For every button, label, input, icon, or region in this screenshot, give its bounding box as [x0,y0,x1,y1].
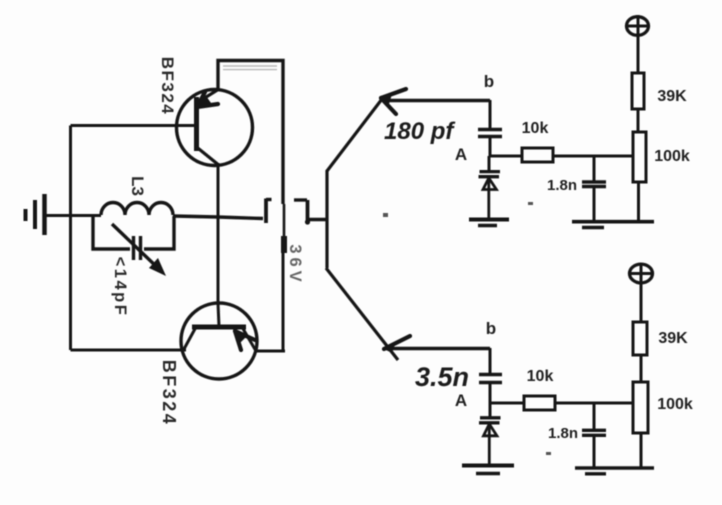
label 180 pf [384,118,455,145]
arrow top feed [381,89,406,114]
connector jack right contact [294,200,326,225]
transistor Q1 BF324 (PNP, top) [177,89,253,166]
resistor 39K (bottom) [633,322,647,355]
resistor 100k (top) [633,132,646,221]
arrow bottom feed [384,336,410,353]
ground (top right circuit, under varicap) [469,220,509,226]
wire Q1 base [71,124,197,127]
wire diagonal to top feed [327,99,382,171]
varicap D2 (bottom) [479,403,501,465]
label 14pF [111,257,129,318]
label BF324 (Q2) [159,360,179,427]
wire diagonal to bottom feed [326,268,398,360]
label 1.8n (top) [547,177,577,194]
label 3.5n [415,362,469,392]
wire Q1 emitter down [217,163,220,303]
node b (top) [484,72,494,91]
node b (bottom) [486,319,496,338]
wire node A to 10k (bottom) [490,402,524,405]
svg-text:39K: 39K [657,88,687,105]
wire node A to 10k [490,155,522,158]
label 36V [286,244,304,285]
label 39K (bottom) [658,330,688,347]
wire b down to cap (bottom) [489,348,492,374]
svg-text:A: A [455,391,467,410]
wire b down to cap [489,100,492,129]
wire left vertical bus [69,126,72,351]
svg-text:b: b [484,72,494,91]
node A (bottom) [455,391,467,410]
svg-text:b: b [486,319,496,338]
ground (top right circuit, under 1.8n) [572,222,654,228]
wire ground to tank [44,214,101,217]
connector jack left contact [218,199,272,224]
svg-text:36V: 36V [286,244,304,285]
svg-text:1.8n: 1.8n [548,425,578,442]
wire antenna stub vertical [325,170,328,268]
inductor L3 [101,202,218,217]
capacitor 1.8n (bottom) [582,403,606,468]
resistor 100k (bottom) [633,382,648,468]
svg-text:10k: 10k [522,120,549,137]
wire 10k to 100k tap [553,155,633,158]
label 39K (top) [657,88,687,105]
resistor 10k (bottom) [524,396,555,410]
ground (left, rotated) [26,194,45,235]
wire bottom left to Q2 collector [71,349,187,352]
ghost scan lines under top rail [223,66,277,70]
label BF324 (Q1) [158,57,177,116]
wire 10k to 100k tap (bottom) [555,402,633,405]
svg-text:1.8n: 1.8n [547,177,577,194]
svg-text:100k: 100k [657,396,693,413]
label 10k (bottom) [527,368,554,385]
svg-text:3.5n: 3.5n [415,362,469,392]
svg-text:39K: 39K [658,330,688,347]
node A (top) [455,145,467,164]
capacitor trimmer <14pF (parallel branch) [93,216,174,276]
wire 39K to 100k (bottom) [640,355,643,382]
resistor 39K (top) [632,73,644,109]
wire 39K to 100k (top) [637,109,640,132]
connector jack plug tip 36V [283,204,286,253]
svg-text:180 pf: 180 pf [384,118,455,145]
artifact dots [383,202,551,455]
capacitor 180pf [478,130,502,157]
transistor Q2 BF324 (PNP, bottom) [181,303,257,379]
wire top feed horizontal to b [383,99,490,102]
label L3 [128,176,147,196]
label 100k (bottom) [657,396,693,413]
svg-text:100k: 100k [654,148,690,165]
label 10k (top) [522,120,549,137]
capacitor 3.5n [479,375,502,404]
ground (bottom right circuit, under varicap) [462,466,514,474]
svg-text:<14pF: <14pF [111,257,129,318]
svg-text:BF324: BF324 [159,360,179,427]
ground (bottom right circuit, under 1.8n) [575,468,654,474]
wire Q1 collector up and top rail [218,61,283,205]
wire Q2 emitter to right bus [256,252,285,351]
svg-text:BF324: BF324 [158,57,177,116]
svg-text:L3: L3 [128,176,147,196]
label 1.8n (bottom) [548,425,578,442]
svg-text:A: A [455,145,467,164]
resistor 10k (top) [522,148,553,162]
power supply symbol (top) [626,15,650,73]
svg-text:10k: 10k [527,368,554,385]
wire bottom feed horizontal to b [386,347,490,350]
power supply symbol (bottom) [629,263,653,322]
capacitor 1.8n (top) [582,156,606,221]
varicap D1 (top) [479,156,501,219]
label 100k (top) [654,148,690,165]
